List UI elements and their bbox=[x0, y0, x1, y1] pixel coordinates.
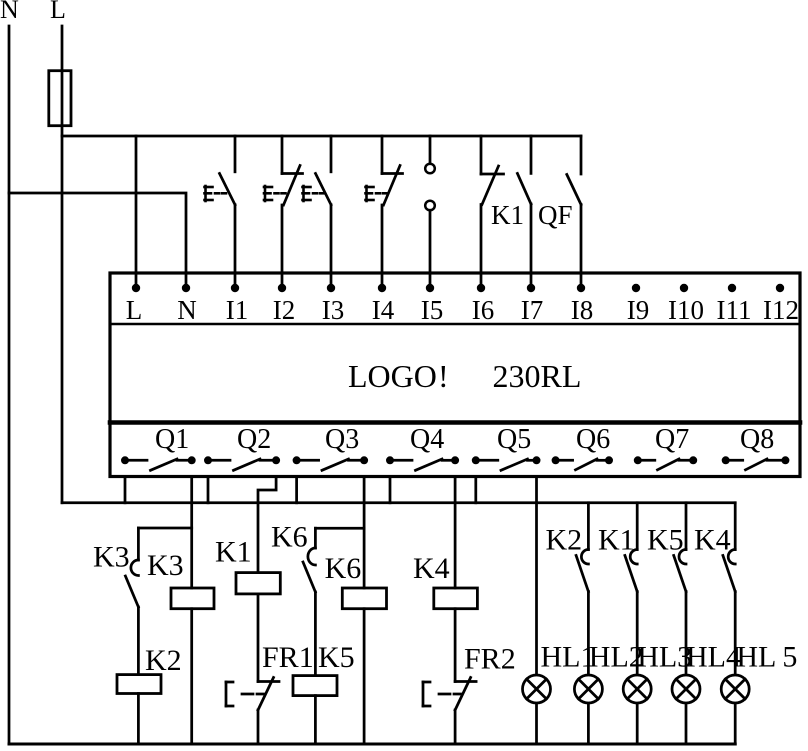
svg-text:HL2: HL2 bbox=[589, 641, 644, 674]
svg-text:Q5: Q5 bbox=[497, 424, 531, 455]
svg-text:K5: K5 bbox=[318, 641, 355, 674]
lamp HL3 bbox=[623, 675, 651, 703]
coil K6 bbox=[342, 588, 386, 609]
thermal contact FR1 (NC) bbox=[258, 680, 279, 683]
relay contact Q6 bbox=[556, 459, 573, 462]
wire Q3 right to K6 coil bbox=[363, 477, 366, 589]
output Q labels bbox=[155, 424, 774, 455]
svg-text:!: ! bbox=[438, 358, 449, 394]
svg-text:LOGO: LOGO bbox=[348, 358, 437, 394]
wire L vertical bbox=[61, 26, 64, 503]
wire L terminal stub bbox=[135, 136, 138, 288]
wire top bus bbox=[62, 135, 581, 138]
wire Q1 right to K3 coil bbox=[190, 477, 193, 589]
svg-text:K1: K1 bbox=[491, 200, 524, 230]
svg-text:I10: I10 bbox=[668, 295, 704, 325]
svg-text:K4: K4 bbox=[694, 524, 731, 557]
wire N vertical bbox=[8, 26, 11, 744]
svg-text:Q3: Q3 bbox=[325, 424, 359, 455]
svg-text:I1: I1 bbox=[226, 295, 249, 325]
relay contact Q7 bbox=[638, 459, 655, 462]
svg-text:L: L bbox=[50, 0, 66, 24]
sensor terminals I5 (two circles) bbox=[429, 136, 432, 164]
svg-text:L: L bbox=[126, 295, 143, 325]
svg-text:N: N bbox=[177, 295, 197, 325]
svg-text:K6: K6 bbox=[325, 552, 362, 585]
wire bottom N bus bbox=[9, 743, 735, 746]
wire mid L bus bbox=[62, 501, 735, 504]
svg-text:I5: I5 bbox=[421, 295, 444, 325]
wire Q4 left stub bbox=[389, 477, 392, 503]
relay contact Q4 bbox=[390, 459, 412, 462]
relay contact Q1 bbox=[125, 459, 147, 462]
coil K5 bbox=[293, 676, 337, 696]
svg-text:K1: K1 bbox=[215, 536, 252, 569]
terminal labels bbox=[126, 295, 799, 325]
svg-text:K6: K6 bbox=[271, 521, 308, 554]
svg-text:K2: K2 bbox=[546, 524, 583, 557]
svg-text:I2: I2 bbox=[273, 295, 296, 325]
contact K3 (NO) bbox=[137, 528, 140, 560]
contact K5 (NO, lamp branch) bbox=[685, 503, 688, 550]
coil K2 bbox=[117, 675, 161, 694]
pushbutton I3 (NO, E) bbox=[330, 136, 333, 172]
terminal dots row bbox=[132, 284, 784, 292]
svg-text:K5: K5 bbox=[647, 524, 684, 557]
svg-text:QF: QF bbox=[538, 200, 573, 230]
wire K3 holding branch tee bbox=[138, 527, 191, 530]
coil K3 bbox=[171, 588, 214, 609]
wire K6 holding branch tee bbox=[315, 527, 364, 530]
lamp branch bottom wires bbox=[587, 704, 590, 744]
svg-text:FR1: FR1 bbox=[262, 641, 314, 674]
svg-text:Q1: Q1 bbox=[155, 424, 189, 455]
wire N branch to terminal N bbox=[9, 193, 186, 288]
fuse FU bbox=[49, 71, 71, 126]
svg-text:Q6: Q6 bbox=[576, 424, 610, 455]
relay contact Q3 bbox=[297, 459, 319, 462]
output contact dots bbox=[121, 456, 789, 464]
pushbutton I4 (NC, E) bbox=[381, 136, 384, 174]
coil K4 bbox=[434, 588, 478, 609]
svg-text:Q8: Q8 bbox=[740, 424, 774, 455]
wire Q2 right jog to K1 coil bbox=[258, 477, 276, 573]
svg-text:K1: K1 bbox=[598, 524, 635, 557]
lamp HL1 bbox=[523, 675, 551, 703]
lamp HL4 bbox=[672, 675, 700, 703]
lamp HL5 bbox=[721, 675, 749, 703]
svg-text:I4: I4 bbox=[372, 295, 395, 325]
svg-text:Q2: Q2 bbox=[237, 424, 271, 455]
svg-text:I7: I7 bbox=[521, 295, 544, 325]
wire Q5 right to lamp HL1 bbox=[535, 477, 538, 675]
svg-text:HL1: HL1 bbox=[541, 641, 596, 674]
svg-text:K2: K2 bbox=[145, 644, 182, 677]
svg-text:I11: I11 bbox=[717, 295, 752, 325]
svg-text:HL4: HL4 bbox=[686, 641, 741, 674]
relay contact Q8 bbox=[726, 459, 743, 462]
svg-text:HL3: HL3 bbox=[637, 641, 692, 674]
contact K2 (NO, lamp branch) bbox=[587, 503, 590, 550]
svg-text:I12: I12 bbox=[763, 295, 799, 325]
contact I8 (QF NO) bbox=[580, 136, 583, 174]
pushbutton I2 (NC, E) bbox=[281, 136, 284, 174]
lamp HL2 bbox=[574, 675, 602, 703]
svg-text:Q4: Q4 bbox=[410, 424, 444, 455]
contact I6 (NC) bbox=[480, 136, 483, 174]
contact K4 (NO, lamp branch) bbox=[734, 503, 737, 550]
svg-text:K3: K3 bbox=[147, 549, 184, 582]
thermal contact FR2 (NC) bbox=[455, 680, 476, 683]
coil K1 bbox=[236, 573, 280, 594]
svg-text:Q7: Q7 bbox=[655, 424, 689, 455]
svg-text:I8: I8 bbox=[571, 295, 594, 325]
svg-text:I3: I3 bbox=[322, 295, 345, 325]
wire Q2 left stub bbox=[207, 477, 210, 503]
svg-text:I9: I9 bbox=[627, 295, 650, 325]
svg-text:K4: K4 bbox=[413, 552, 450, 585]
wire Q3 left stub bbox=[295, 477, 298, 503]
contact I7 (K1 NO) bbox=[530, 136, 533, 173]
svg-text:N: N bbox=[0, 0, 19, 24]
svg-text:FR2: FR2 bbox=[464, 643, 516, 676]
relay contact Q2 bbox=[208, 459, 230, 462]
contact K6 (NO) bbox=[314, 528, 317, 548]
contact K1 (NO, lamp branch) bbox=[636, 503, 639, 550]
relay contact Q5 bbox=[476, 459, 498, 462]
wire Q4 right to K4 coil bbox=[454, 477, 457, 589]
op module LOGO! 230RL box bbox=[110, 273, 800, 477]
svg-text:HL 5: HL 5 bbox=[736, 641, 797, 674]
svg-text:I6: I6 bbox=[472, 295, 495, 325]
svg-text:K3: K3 bbox=[93, 541, 130, 574]
pushbutton I1 (NO, E) bbox=[234, 136, 237, 172]
wire Q5 left stub bbox=[474, 477, 477, 503]
wire Q1 left stub bbox=[124, 477, 127, 503]
svg-text:230RL: 230RL bbox=[493, 358, 582, 394]
